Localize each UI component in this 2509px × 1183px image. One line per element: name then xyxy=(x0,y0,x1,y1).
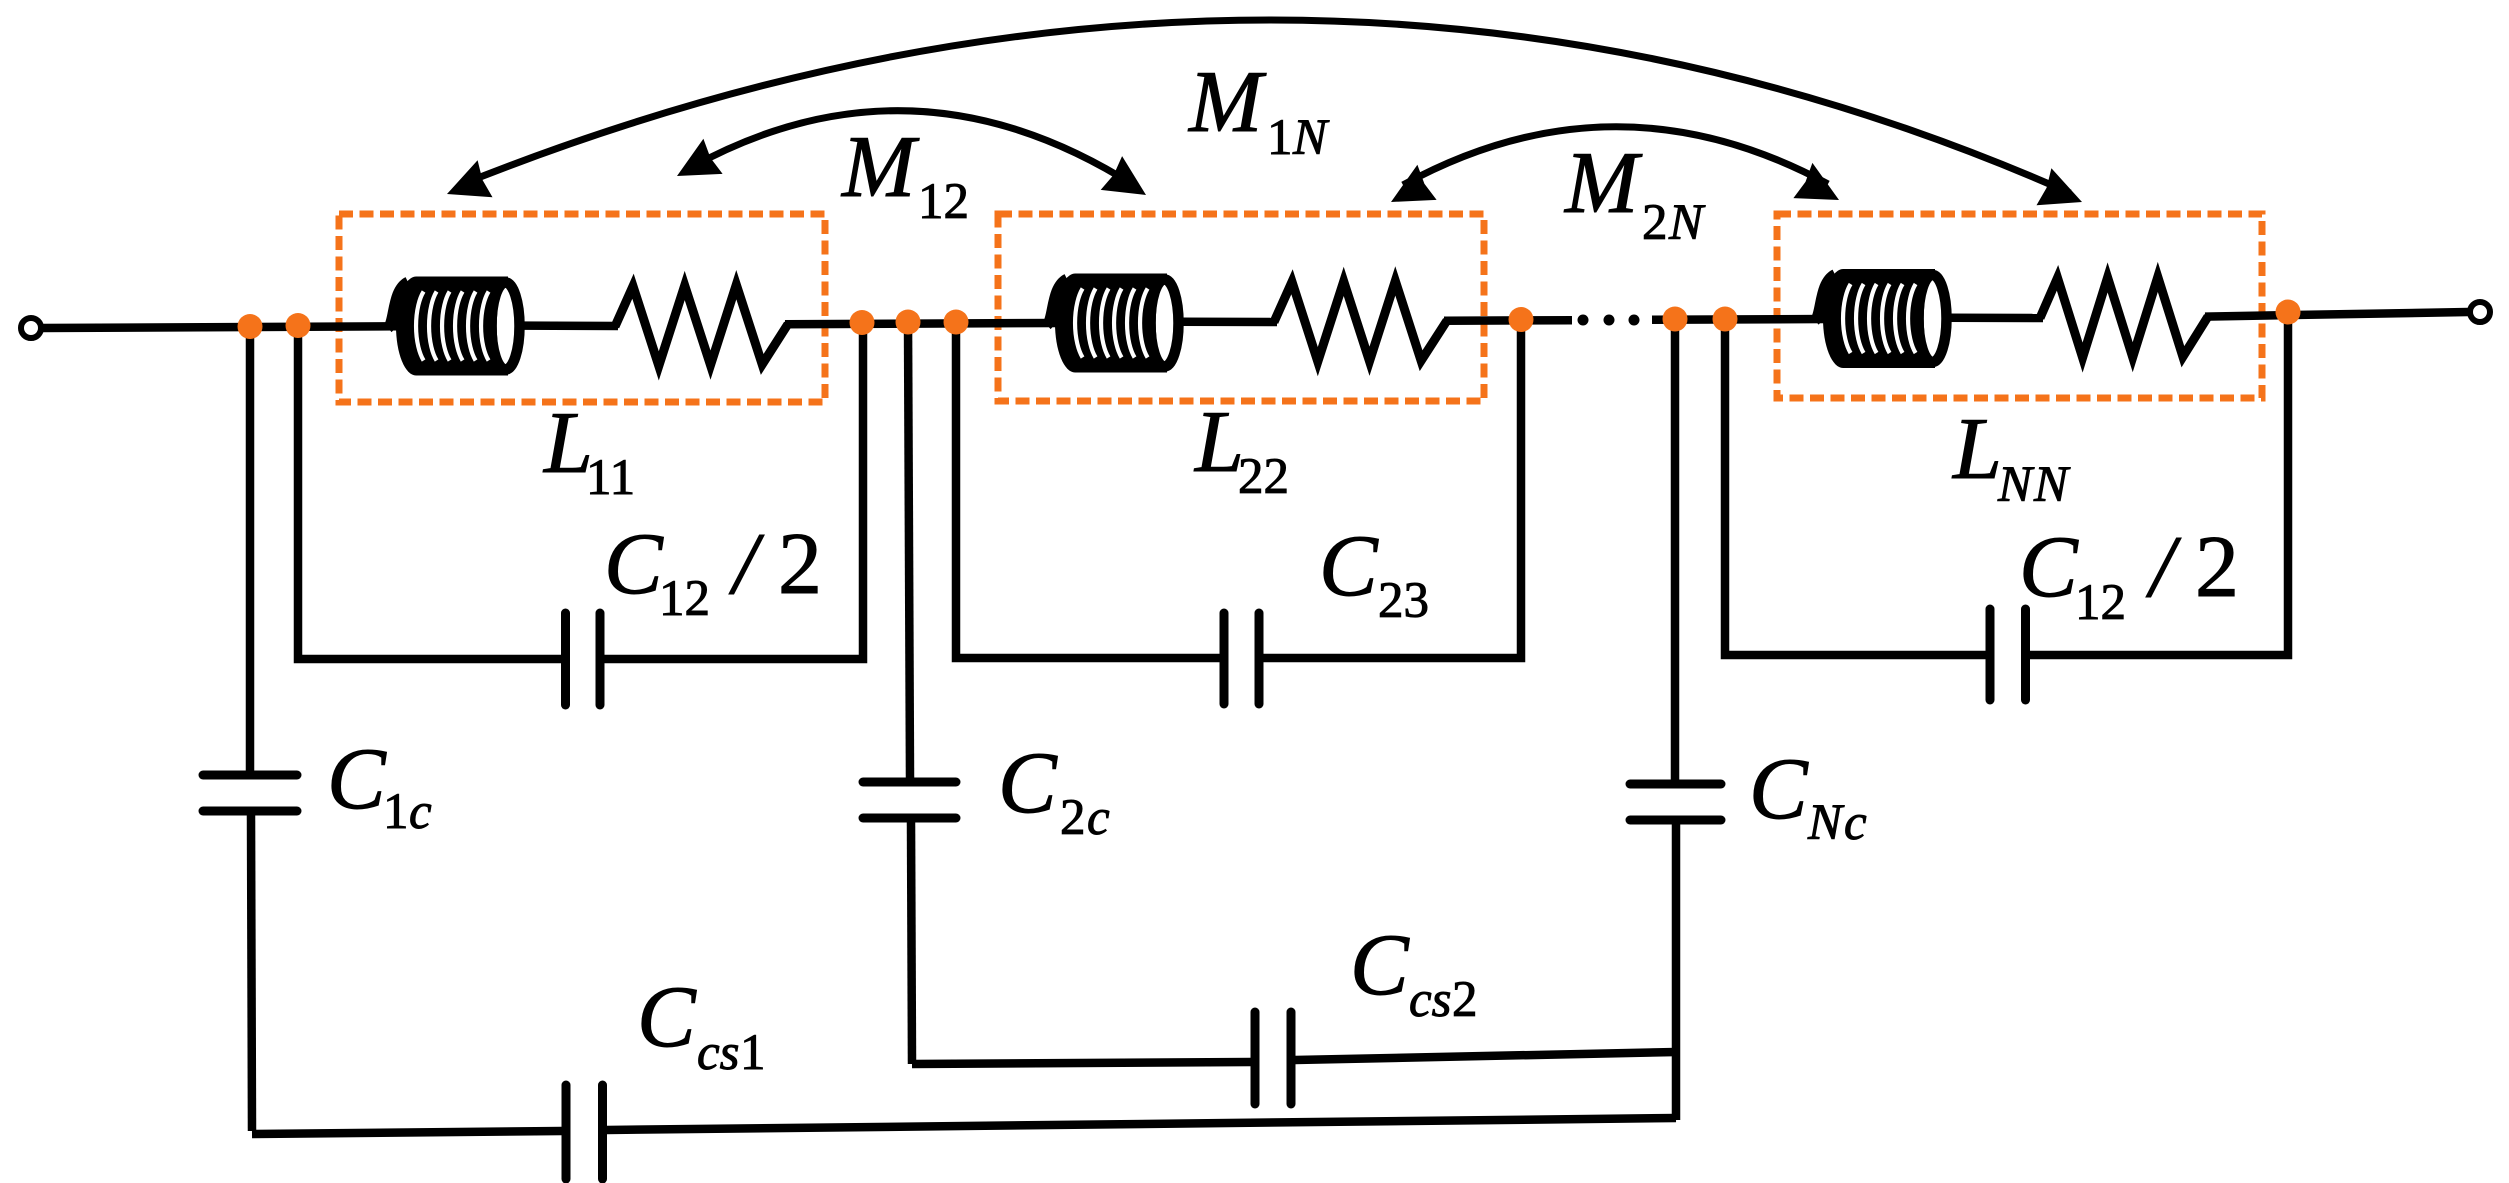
svg-text:C: C xyxy=(1350,917,1410,1014)
arrowhead M2N right xyxy=(1793,163,1839,200)
capacitor C2c lead top xyxy=(908,322,910,778)
svg-text:C: C xyxy=(604,516,664,613)
right terminal xyxy=(2470,302,2490,322)
left terminal xyxy=(21,318,41,338)
svg-text:c: c xyxy=(409,784,432,840)
wire Ccs2 right xyxy=(1295,1052,1676,1060)
svg-text:1: 1 xyxy=(1267,110,1293,166)
svg-text:cs: cs xyxy=(1409,972,1451,1028)
node node out xyxy=(2276,300,2301,325)
svg-text:C: C xyxy=(327,731,387,828)
capacitor C2c lead bottom xyxy=(911,822,912,1064)
node node 1 loop xyxy=(286,313,311,338)
resistor R2 xyxy=(1274,281,1447,362)
svg-text:12: 12 xyxy=(659,571,710,627)
inductor LNN xyxy=(1815,269,1947,368)
wire L11 coil to R1 xyxy=(521,321,618,330)
capacitor C1c lead top xyxy=(246,327,255,772)
mutual inductance arc M12 xyxy=(690,111,1135,186)
svg-text:2: 2 xyxy=(2195,519,2239,616)
inductor L11 xyxy=(388,277,520,376)
svg-text:C: C xyxy=(2019,519,2079,616)
svg-text:N: N xyxy=(1997,457,2035,513)
arrowhead M2N left xyxy=(1391,165,1437,202)
node node 3 loop xyxy=(1509,307,1534,332)
wire loop C12/2 right loop left side xyxy=(1725,319,1986,655)
svg-text:11: 11 xyxy=(586,450,635,506)
capacitor CNc lead top xyxy=(1671,319,1680,780)
capacitor C1c lead bottom xyxy=(251,815,252,1131)
svg-text:L: L xyxy=(1951,401,2002,498)
svg-text:1: 1 xyxy=(383,784,409,840)
resistor R3 xyxy=(2040,277,2208,358)
svg-text:c: c xyxy=(1087,790,1110,846)
arrowhead M1N left xyxy=(447,160,493,197)
arrowhead M12 left xyxy=(677,139,723,176)
capacitor C12/2 left plates xyxy=(561,613,570,705)
wire Ccs2 left xyxy=(912,1062,1251,1064)
capacitor C12/2 right plates xyxy=(1986,609,1995,700)
svg-text:23: 23 xyxy=(1378,573,1429,629)
svg-text:L: L xyxy=(1193,394,1244,491)
wire loop C12/2 right side xyxy=(604,323,863,660)
svg-text:N: N xyxy=(2033,457,2071,513)
resistor R1 xyxy=(615,285,788,366)
svg-text:12: 12 xyxy=(2075,575,2126,631)
wire R3 to right terminal xyxy=(2205,312,2468,317)
svg-text:2: 2 xyxy=(1060,790,1086,846)
svg-text:cs: cs xyxy=(697,1025,739,1081)
svg-text:12: 12 xyxy=(918,174,969,230)
wire loop C23 left side xyxy=(956,322,1220,658)
wire bottom Ccs1 left xyxy=(252,1131,562,1134)
capacitor Ccs1 plates xyxy=(562,1085,571,1179)
inductor L22 xyxy=(1047,274,1179,373)
svg-text:2: 2 xyxy=(1452,972,1478,1028)
wire loop C12/2 left side xyxy=(298,326,561,659)
svg-text:M: M xyxy=(1187,54,1267,151)
capacitor C2c plates xyxy=(863,778,956,787)
svg-text:M: M xyxy=(1563,135,1643,232)
node node 2 loop-right xyxy=(944,310,969,335)
arrowhead M12 right xyxy=(1101,156,1146,195)
wire R2 to dots xyxy=(1444,316,1572,325)
ellipsis dots xyxy=(1578,315,1589,326)
svg-text:N: N xyxy=(1807,795,1845,851)
wire left terminal to L11 xyxy=(41,326,399,328)
svg-text:N: N xyxy=(1668,195,1706,251)
svg-text:C: C xyxy=(637,969,697,1066)
svg-text:22: 22 xyxy=(1238,449,1289,505)
svg-text:C: C xyxy=(998,735,1058,832)
capacitor CNc lead bottom xyxy=(1672,824,1681,1120)
wire loop C23 right side xyxy=(1263,320,1521,659)
svg-text:1: 1 xyxy=(740,1025,766,1081)
svg-text:C: C xyxy=(1319,518,1379,615)
capacitor C23 plates xyxy=(1220,613,1229,704)
wire dots to LNN coil xyxy=(1652,315,1826,324)
capacitor C1c plates xyxy=(203,771,297,780)
wire L22 coil to R2 xyxy=(1180,318,1277,327)
dashed box resonator 1 xyxy=(339,214,825,402)
arrowhead M1N right xyxy=(2037,168,2083,205)
svg-text:C: C xyxy=(1749,741,1809,838)
wire bottom Ccs1 right xyxy=(607,1118,1677,1130)
dashed box resonator N xyxy=(1777,214,2262,398)
node node N CNc xyxy=(1663,307,1688,332)
capacitor Ccs2 plates xyxy=(1251,1012,1260,1104)
node node 1 C1c xyxy=(238,314,263,339)
wire loop C12/2 right right side xyxy=(2030,312,2289,655)
svg-text:2: 2 xyxy=(778,516,822,613)
wire LNN coil to R3 xyxy=(1947,314,2043,323)
dashed box resonator 2 xyxy=(998,214,1484,401)
node node 2 loop-left xyxy=(850,310,875,335)
wire R1 to L22 coil xyxy=(785,323,1058,324)
svg-text:M: M xyxy=(840,119,920,216)
svg-text:2: 2 xyxy=(1642,195,1668,251)
mutual inductance arc M1N xyxy=(460,20,2070,193)
mutual inductance arc M2N xyxy=(1403,127,1828,185)
svg-text:N: N xyxy=(1292,110,1330,166)
node node 2 C2c xyxy=(896,310,921,335)
node node N loop xyxy=(1713,307,1738,332)
capacitor CNc plates xyxy=(1630,780,1721,789)
svg-text:c: c xyxy=(1844,795,1867,851)
